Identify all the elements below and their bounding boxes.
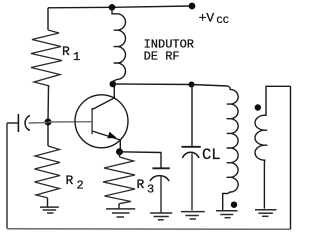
ground below CL (181, 212, 205, 219)
wire R1 top lead (47, 8, 49, 30)
svg-text:R: R (137, 177, 145, 192)
capacitor C1 coupling straight plate (17, 114, 19, 132)
label +Vcc (199, 11, 229, 27)
label INDUTOR DE RF (144, 37, 194, 63)
wire L3 top lead (266, 86, 291, 116)
wire R3 top lead (119, 152, 121, 157)
svg-text:3: 3 (147, 183, 154, 197)
svg-text:R: R (62, 44, 70, 59)
transistor Q1 emitter arrow (107, 132, 116, 139)
capacitor C2 bypass straight plate (152, 167, 169, 169)
inductor L1 RF choke (112, 7, 125, 84)
svg-text:R: R (66, 173, 74, 188)
node L3 phasing dot (255, 104, 261, 110)
wire C2 bottom lead (160, 177, 162, 213)
node base junction (45, 119, 52, 126)
ground below L2 (216, 211, 237, 218)
transistor Q1 collector stroke (92, 84, 114, 110)
node L2 phasing dot (231, 202, 237, 208)
svg-text:+V: +V (199, 11, 215, 26)
label R1 (62, 44, 80, 64)
wire R2 bottom lead (47, 198, 49, 207)
capacitor CL curved plate (182, 152, 199, 158)
label R3 (137, 177, 155, 197)
svg-text:2: 2 (77, 179, 84, 193)
capacitor CL straight plate (182, 146, 201, 148)
ground below R2 (40, 207, 59, 213)
wire CL bottom lead (191, 154, 193, 211)
wire CL top lead (191, 85, 193, 147)
svg-text:1: 1 (73, 50, 80, 64)
wire R1 bottom to base node (47, 86, 50, 122)
svg-text:DE RF: DE RF (144, 50, 180, 64)
inductor L3 secondary coil (255, 115, 267, 208)
label R2 (66, 173, 84, 193)
resistor R2 (35, 146, 61, 198)
ground below R3 (106, 209, 135, 217)
capacitor C2 bypass curved plate (150, 176, 169, 181)
transistor Q1 emitter stroke (92, 131, 120, 152)
wire collector rail (113, 84, 228, 86)
wire C1 left lead (7, 122, 18, 124)
wire base lead (48, 121, 92, 123)
node collector junction (110, 81, 117, 88)
node Vcc rail junction (109, 4, 116, 11)
wire R3 bottom lead (118, 204, 120, 209)
node Vcc terminal dot (189, 3, 196, 10)
svg-text:CL: CL (202, 146, 221, 164)
resistor R3 (103, 157, 135, 204)
capacitor C1 coupling curved plate (25, 116, 30, 131)
svg-text:CC: CC (216, 15, 229, 27)
wire feedback left vertical (6, 123, 8, 229)
inductor L2 tank coil (223, 86, 238, 211)
wire R2 top lead (47, 122, 49, 146)
node emitter junction (116, 148, 123, 155)
transistor Q1 base bar (91, 108, 93, 134)
ground below L3 (255, 210, 277, 217)
node CL junction (189, 82, 195, 88)
wire C1 right lead (29, 122, 49, 125)
wire top Vcc rail (48, 6, 192, 8)
wire emitter to bypass cap (120, 152, 162, 168)
ground below C2 (150, 213, 172, 220)
transistor Q1 circle (75, 95, 128, 148)
resistor R1 (31, 30, 62, 86)
wire feedback bottom (7, 228, 291, 231)
wire feedback right vertical (290, 86, 292, 229)
